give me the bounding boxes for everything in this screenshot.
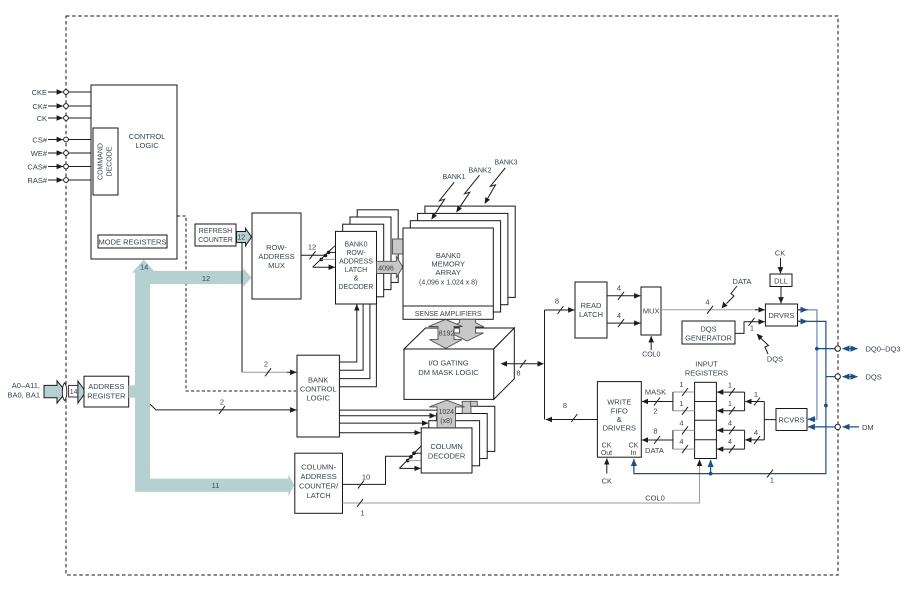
bus address input arrow head (inside): [78, 381, 86, 403]
svg-text:CK: CK: [602, 443, 612, 450]
svg-text:DECODE: DECODE: [107, 146, 114, 176]
svg-text:ROW-: ROW-: [266, 243, 287, 252]
wire 8 write fifo to data bus: [546, 401, 598, 422]
block I/O GATING DM MASK LOGIC (3D): [404, 328, 514, 399]
svg-text:1: 1: [754, 390, 758, 399]
svg-text:LOGIC: LOGIC: [307, 394, 331, 403]
svg-text:CK#: CK#: [32, 102, 47, 111]
svg-text:COLUMN-: COLUMN-: [301, 463, 337, 472]
node INPUT REGISTERS label: [685, 360, 728, 378]
svg-text:DM: DM: [862, 423, 874, 432]
node DQS pin circle: [835, 374, 840, 379]
wire refresh area down to bank control (2): [242, 243, 296, 376]
svg-text:(x8): (x8): [440, 418, 452, 425]
wire bank control to column decoders (4 lines): [339, 410, 444, 433]
wire bank control to row latch stack (4 verticals): [339, 284, 376, 387]
node DM pin circle: [835, 424, 840, 429]
block COLUMN DECODER stack (banks 3,2,1): [444, 406, 495, 451]
svg-text:DQS: DQS: [767, 355, 783, 364]
svg-text:ARRAY: ARRAY: [436, 268, 461, 277]
bus pinch lens at border: [62, 383, 67, 401]
svg-text:1: 1: [750, 324, 754, 333]
bus 11 horizontal to column-address counter: [149, 474, 294, 496]
wire 10 column counter to decoder fan: [343, 446, 422, 489]
svg-text:8: 8: [555, 297, 559, 306]
svg-text:2: 2: [653, 407, 657, 416]
svg-text:BANK1: BANK1: [443, 174, 466, 181]
pin CAS#: [27, 163, 93, 172]
bus 8192 behind-arrow fragment: [450, 319, 484, 341]
node A0-A11, BA0, BA1 input labels: [7, 381, 40, 400]
svg-text:LATCH: LATCH: [345, 267, 367, 274]
block ADDRESS REGISTER: [84, 376, 129, 407]
svg-text:BANK2: BANK2: [469, 168, 492, 175]
block WRITE FIFO & DRIVERS: [597, 382, 641, 458]
node BANK2 label with zigzag arrow: [456, 168, 491, 213]
wire blue clock into input registers: [709, 460, 774, 485]
svg-text:4: 4: [754, 428, 758, 437]
wire right bracket top (1,1): [717, 380, 745, 415]
svg-text:ROW-: ROW-: [346, 250, 366, 257]
svg-text:1: 1: [679, 399, 683, 408]
block input registers (4 cells): [695, 382, 717, 458]
svg-text:WRITE: WRITE: [607, 398, 631, 407]
svg-text:BANK3: BANK3: [495, 160, 518, 167]
block DLL: [770, 274, 792, 287]
svg-text:DQS: DQS: [700, 325, 716, 334]
svg-text:CS#: CS#: [32, 136, 47, 145]
svg-text:CAS#: CAS#: [27, 163, 47, 172]
svg-text:DRVRS: DRVRS: [768, 311, 794, 320]
svg-text:CKE: CKE: [32, 88, 47, 97]
svg-text:REFRESH: REFRESH: [199, 228, 232, 235]
svg-text:10: 10: [362, 473, 370, 482]
node DATA label with zigzag arrow: [722, 277, 752, 308]
wire rcvrs splitter bus 1: [745, 390, 776, 444]
svg-text:14: 14: [70, 389, 78, 396]
wire DRVRS DQS output (dark blue): [634, 321, 828, 473]
block DQS GENERATOR: [682, 321, 735, 344]
svg-text:12: 12: [308, 243, 316, 252]
block CONTROL LOGIC: [91, 85, 177, 259]
svg-text:GENERATOR: GENERATOR: [685, 334, 732, 343]
svg-text:(4,096 x 1,024 x 8): (4,096 x 1,024 x 8): [419, 280, 477, 287]
svg-text:READ: READ: [581, 301, 602, 310]
svg-text:DLL: DLL: [774, 277, 788, 286]
wire DRVRS DQ output (light blue): [798, 310, 819, 419]
svg-text:COUNTER/: COUNTER/: [299, 482, 339, 491]
svg-text:COL0: COL0: [645, 494, 665, 503]
svg-text:RAS#: RAS#: [27, 176, 47, 185]
node DQ0-DQ3 pin circle: [835, 346, 840, 351]
pin RAS#: [27, 176, 93, 185]
chip boundary dashed border: [66, 16, 838, 575]
svg-text:DECODER: DECODER: [428, 452, 466, 461]
svg-text:INPUT: INPUT: [695, 360, 718, 369]
wire left bracket mask (1,1): [673, 380, 695, 415]
wire COL0 into mux: [642, 336, 660, 358]
svg-text:SENSE AMPLIFIERS: SENSE AMPLIFIERS: [415, 311, 482, 318]
svg-text:MUX: MUX: [268, 261, 285, 270]
svg-text:8192: 8192: [439, 331, 455, 338]
svg-text:BA0, BA1: BA0, BA1: [7, 391, 40, 400]
wire 8 double arrow I/O gating to data bus: [501, 360, 545, 378]
svg-text:REGISTER: REGISTER: [87, 392, 126, 401]
block MODE REGISTERS: [98, 235, 167, 248]
block BANK0 ROW-ADDRESS LATCH & DECODER: [336, 231, 377, 304]
bus refresh 12 arrow into row-address mux: [237, 228, 252, 246]
svg-text:ADDRESS: ADDRESS: [339, 259, 373, 266]
wire 2 address register to bank control: [150, 398, 296, 414]
bus vertical address bus: [135, 271, 150, 492]
svg-text:A0–A11,: A0–A11,: [12, 381, 40, 390]
svg-text:ADDRESS: ADDRESS: [88, 382, 124, 391]
pin CKE: [32, 88, 91, 97]
svg-text:4: 4: [617, 311, 621, 320]
svg-text:1: 1: [728, 380, 732, 389]
node BANK3 label with zigzag arrow: [485, 160, 518, 205]
svg-text:ADDRESS: ADDRESS: [300, 472, 336, 481]
wire COL0 gray line from column counter to input registers: [343, 460, 700, 518]
svg-text:12: 12: [237, 235, 245, 242]
svg-text:LOGIC: LOGIC: [135, 141, 159, 150]
block BANK CONTROL LOGIC: [297, 355, 339, 437]
svg-text:8: 8: [563, 401, 567, 410]
node BANK1 label with zigzag arrow: [431, 174, 465, 220]
node DQS label with zigzag arrow: [757, 334, 783, 364]
bus 12 horizontal to row-address mux: [149, 268, 252, 287]
svg-text:2: 2: [264, 360, 268, 369]
svg-text:BANK: BANK: [308, 376, 328, 385]
wire DLL to DRVRS: [780, 287, 782, 304]
svg-text:LATCH: LATCH: [307, 491, 331, 500]
svg-text:DQ0–DQ3: DQ0–DQ3: [866, 345, 901, 354]
svg-text:2: 2: [220, 398, 224, 407]
svg-text:4096: 4096: [378, 265, 394, 272]
svg-text:DQS: DQS: [866, 373, 882, 382]
wire 4 read latch to mux (lower): [607, 311, 640, 327]
svg-text:BANK0: BANK0: [345, 242, 368, 249]
bus 14 up-arrow into control logic: [132, 260, 156, 280]
block ROW-ADDRESS MUX: [252, 213, 301, 299]
svg-text:8: 8: [516, 369, 520, 378]
bus 1024 behind-arrow fragments: [462, 401, 471, 413]
pin WE#: [31, 149, 93, 158]
svg-text:COMMAND: COMMAND: [98, 143, 105, 180]
block COLUMN-ADDRESS COUNTER/LATCH: [295, 453, 343, 513]
svg-text:REGISTERS: REGISTERS: [685, 369, 728, 378]
block REFRESH COUNTER: [195, 224, 236, 246]
svg-text:WE#: WE#: [31, 149, 48, 158]
pin CK#: [32, 102, 91, 111]
bus address input arrow (outside): [44, 381, 66, 403]
wire 12 row mux to latch fan: [301, 243, 336, 268]
wire read/write vertical data bus: [544, 310, 546, 420]
svg-text:1024: 1024: [439, 409, 455, 416]
bus 4096 behind-arrow fragment: [393, 239, 404, 254]
svg-text:Out: Out: [601, 450, 612, 457]
svg-text:CK: CK: [629, 443, 639, 450]
svg-text:COUNTER: COUNTER: [198, 237, 233, 244]
wire DQS line: [826, 373, 882, 382]
block MUX: [641, 287, 661, 335]
wire CK into write fifo CK Out: [602, 459, 612, 486]
block RCVRS: [776, 409, 807, 431]
svg-text:4: 4: [705, 298, 709, 307]
svg-text:LATCH: LATCH: [579, 310, 603, 319]
svg-text:1: 1: [360, 509, 364, 518]
svg-text:1: 1: [728, 399, 732, 408]
svg-text:RCVRS: RCVRS: [778, 416, 804, 425]
wire MASK 2 into write fifo: [642, 388, 673, 416]
block COLUMN DECODER bank0: [421, 428, 472, 473]
svg-text:1: 1: [679, 380, 683, 389]
svg-text:DRIVERS: DRIVERS: [603, 424, 636, 433]
svg-text:DATA: DATA: [733, 277, 752, 286]
svg-text:4: 4: [728, 418, 732, 427]
svg-text:ADDRESS: ADDRESS: [258, 252, 294, 261]
svg-text:CK: CK: [602, 477, 612, 486]
bus width 14 label box: [69, 385, 79, 397]
svg-text:DATA: DATA: [645, 446, 664, 455]
svg-text:MASK: MASK: [645, 388, 666, 397]
wire dqs generator to drvrs (1): [735, 318, 765, 334]
wire DQ0-DQ3 line: [817, 345, 901, 354]
svg-text:14: 14: [140, 263, 148, 272]
svg-text:I/O GATING: I/O GATING: [428, 359, 468, 368]
svg-text:CONTROL: CONTROL: [129, 132, 166, 141]
svg-text:CK: CK: [37, 114, 47, 123]
bus 1024 (x8) up-arrow into I/O gating: [429, 400, 464, 428]
svg-text:In: In: [631, 450, 637, 457]
wire left bracket data (4,4): [673, 418, 695, 453]
block DRVRS: [765, 304, 797, 326]
wire right bracket bottom (4,4): [717, 418, 745, 453]
svg-text:COL0: COL0: [642, 352, 660, 359]
svg-text:MUX: MUX: [643, 307, 660, 316]
svg-text:DECODER: DECODER: [338, 284, 373, 291]
svg-text:&: &: [354, 276, 359, 283]
block READ LATCH: [575, 282, 607, 338]
wire DM line: [808, 423, 874, 432]
pin CK: [37, 114, 91, 123]
svg-text:1: 1: [770, 476, 774, 485]
svg-text:4: 4: [679, 437, 683, 446]
block COMMAND DECODE: [93, 128, 118, 195]
svg-text:8: 8: [653, 426, 657, 435]
svg-text:4: 4: [679, 418, 683, 427]
svg-text:CK: CK: [775, 249, 785, 258]
svg-text:4: 4: [728, 437, 732, 446]
bus 4096 arrow latch to memory array: [377, 256, 403, 277]
wire 4 data mux to drvrs: [661, 298, 765, 314]
wire CK to DLL: [780, 258, 782, 273]
svg-text:CONTROL: CONTROL: [300, 385, 337, 394]
svg-text:11: 11: [212, 481, 220, 490]
wire 8 into read latch: [545, 297, 575, 315]
wire dashed control to bank control: [177, 216, 296, 391]
svg-text:DM MASK LOGIC: DM MASK LOGIC: [418, 368, 479, 377]
block memory array stack (banks 3,2,1): [425, 206, 515, 297]
svg-text:4: 4: [617, 284, 621, 293]
svg-text:12: 12: [202, 274, 210, 283]
wire DATA 8 into write fifo: [642, 426, 673, 455]
wire 4 read latch to mux (upper): [607, 284, 640, 300]
bus stub address register to vertical bus: [129, 385, 136, 397]
block BANK0 MEMORY ARRAY + SENSE AMPLIFIERS: [403, 228, 493, 319]
svg-text:COLUMN: COLUMN: [430, 442, 463, 451]
pin CS#: [32, 136, 93, 145]
bus 8192 double arrow sense amps to I/O gating: [429, 319, 463, 348]
svg-text:MODE REGISTERS: MODE REGISTERS: [99, 237, 167, 246]
block BANK ROW-ADDRESS LATCH stack (banks 3,2,1): [357, 210, 398, 283]
